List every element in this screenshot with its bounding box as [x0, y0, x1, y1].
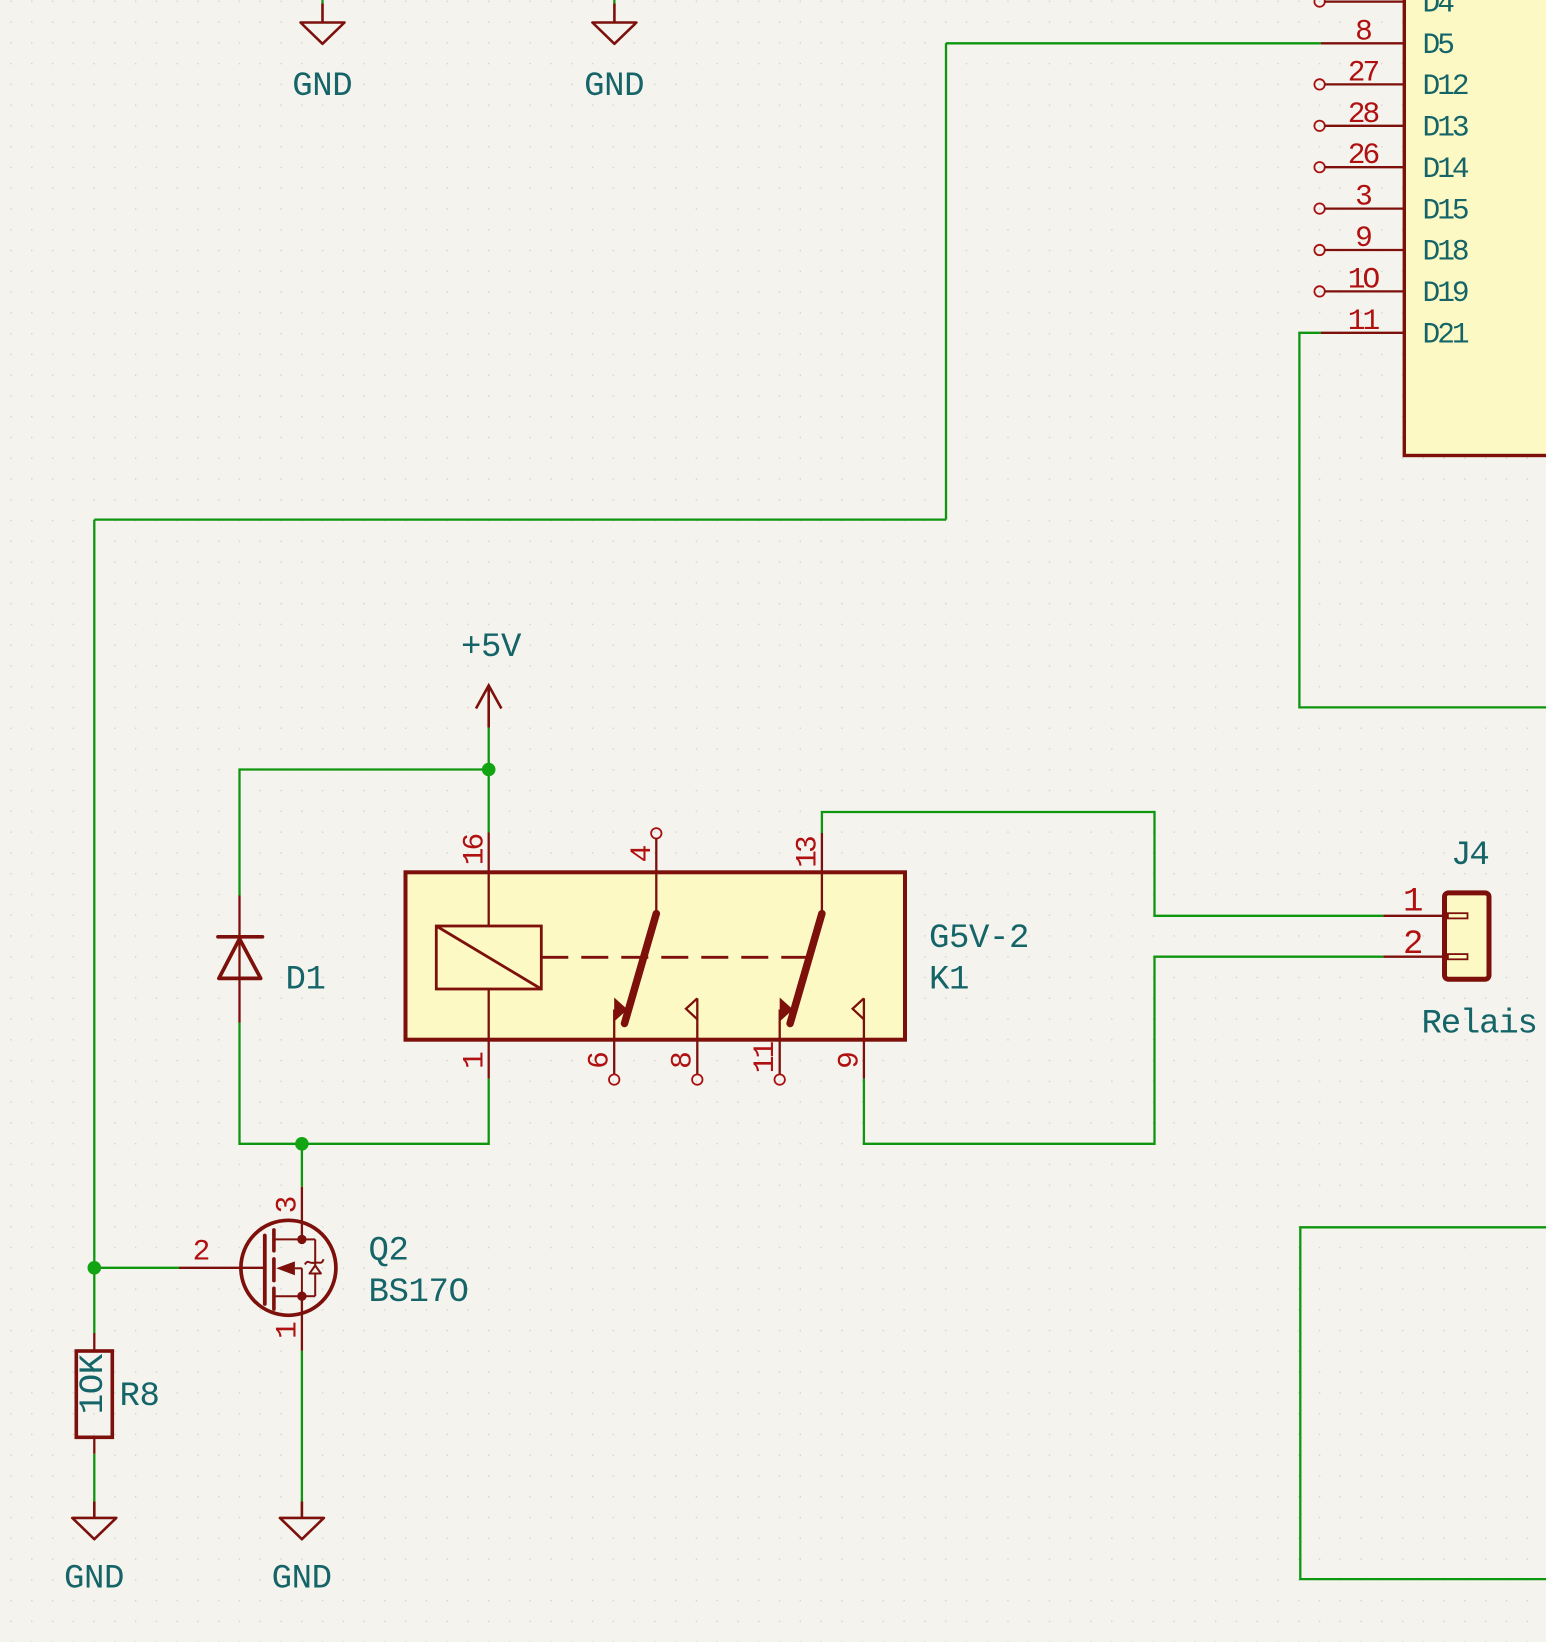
- wire D5 net horizontal top: [946, 42, 1321, 44]
- svg-text:BS17O: BS17O: [369, 1274, 469, 1312]
- wire gate of Q2: [94, 1267, 179, 1269]
- Q2 channel segments: [272, 1230, 276, 1251]
- svg-text:D14: D14: [1423, 152, 1469, 186]
- relay pin 16: [488, 833, 490, 927]
- relay switch 1: [625, 914, 657, 1024]
- resistor R8 10K: [75, 1333, 160, 1454]
- svg-text:2: 2: [1403, 926, 1423, 964]
- svg-text:1: 1: [1403, 884, 1423, 922]
- pin 3 D15: [1314, 180, 1468, 228]
- svg-text:J4: J4: [1451, 837, 1488, 875]
- wire D21 net: [1299, 333, 1546, 708]
- junction node gate/R8: [88, 1261, 102, 1275]
- svg-text:28: 28: [1348, 97, 1379, 131]
- svg-text:13: 13: [790, 837, 824, 868]
- svg-text:11: 11: [748, 1042, 782, 1074]
- wire D5 net long horizontal: [94, 518, 946, 520]
- wire R8 to GND: [93, 1454, 95, 1502]
- svg-text:6: 6: [583, 1053, 617, 1069]
- svg-text:GND: GND: [64, 1561, 124, 1599]
- pin 10 D19: [1314, 262, 1468, 310]
- svg-text:Relais: Relais: [1422, 1005, 1537, 1043]
- svg-text:11: 11: [1348, 304, 1380, 338]
- J4 pin 1: [1383, 915, 1444, 917]
- wire relay pin13 to J4 pin1: [822, 812, 1383, 916]
- transistor Q2 BS170: [179, 1187, 469, 1351]
- svg-text:D4: D4: [1423, 0, 1455, 20]
- svg-text:1O: 1O: [1348, 262, 1380, 296]
- svg-text:D13: D13: [1423, 111, 1468, 145]
- J4 pin 2: [1383, 956, 1444, 958]
- relay pin 1: [488, 989, 490, 1079]
- wire GND1 stub: [321, 0, 323, 4]
- svg-text:3: 3: [1355, 180, 1371, 214]
- junction node Q2 drain: [295, 1137, 309, 1151]
- ground GND2: [584, 4, 644, 107]
- svg-text:R8: R8: [120, 1378, 160, 1416]
- Q2 drain pin 3: [301, 1187, 303, 1240]
- ground GND1: [292, 4, 352, 107]
- svg-text:D5: D5: [1423, 28, 1454, 62]
- Q2 body arrow: [276, 1261, 295, 1275]
- svg-text:16: 16: [457, 835, 491, 866]
- svg-text:8: 8: [1355, 14, 1371, 48]
- svg-text:3: 3: [270, 1197, 304, 1213]
- svg-text:D19: D19: [1423, 276, 1468, 310]
- svg-text:D1: D1: [286, 962, 326, 1000]
- wire Q2 drain up: [301, 1144, 303, 1187]
- svg-text:1: 1: [457, 1052, 491, 1069]
- svg-text:+5V: +5V: [461, 629, 522, 667]
- ground GND4 (under Q2): [272, 1502, 332, 1599]
- connector J4 Relais: [1383, 837, 1536, 1043]
- relay pin 9: [853, 998, 864, 1019]
- wire D5 net vertical: [945, 43, 947, 519]
- svg-text:Q2: Q2: [369, 1233, 409, 1271]
- relay switch 2: [790, 914, 822, 1024]
- wire D1 bottom to bus: [240, 1023, 489, 1144]
- svg-text:GND: GND: [272, 1561, 332, 1599]
- diode D1: [218, 896, 326, 1023]
- pin 11 D21: [1321, 304, 1469, 352]
- wire bottom-right loop: [1300, 1227, 1546, 1579]
- junction node +5V: [482, 763, 496, 777]
- pin 27 D12: [1314, 55, 1468, 103]
- svg-text:1: 1: [270, 1322, 304, 1339]
- wire relay pin9 to J4 pin2: [864, 957, 1383, 1144]
- svg-text:K1: K1: [929, 962, 969, 1000]
- IC module U (partial, top right): [1404, 0, 1546, 456]
- svg-text:27: 27: [1348, 55, 1379, 89]
- svg-text:D21: D21: [1423, 318, 1469, 352]
- svg-text:9: 9: [832, 1053, 866, 1069]
- Q2 gate pin 2: [179, 1267, 263, 1269]
- relay pin 4: [651, 828, 661, 838]
- pin D4: [1314, 0, 1454, 20]
- wire Q2 source to GND: [301, 1351, 303, 1502]
- Q2 drain stub: [274, 1238, 302, 1240]
- svg-text:1OK: 1OK: [75, 1353, 113, 1414]
- relay coil: [436, 926, 541, 989]
- svg-text:D15: D15: [1423, 193, 1468, 227]
- relay K1 G5V-2: [406, 828, 1030, 1085]
- relay pin 13: [821, 833, 823, 914]
- pin 9 D18: [1314, 221, 1468, 269]
- svg-text:9: 9: [1355, 221, 1371, 255]
- relay link dashed line: [541, 956, 806, 959]
- svg-text:4: 4: [625, 845, 659, 862]
- pin 8 D5: [1321, 14, 1453, 62]
- svg-text:GND: GND: [292, 68, 352, 106]
- svg-text:2: 2: [193, 1234, 209, 1268]
- Q2 source pin 1: [301, 1296, 303, 1351]
- svg-text:8: 8: [666, 1053, 700, 1069]
- wire +5V down to relay pin 16: [488, 728, 490, 833]
- power symbol +5V: [461, 629, 522, 728]
- pin 26 D14: [1314, 138, 1469, 186]
- ground GND3 (under R8): [64, 1502, 124, 1599]
- svg-text:D18: D18: [1423, 235, 1468, 269]
- svg-text:GND: GND: [584, 68, 644, 106]
- relay pin 8: [686, 998, 697, 1019]
- svg-text:26: 26: [1348, 138, 1379, 172]
- svg-text:G5V-2: G5V-2: [929, 920, 1029, 958]
- pin 28 D13: [1314, 97, 1468, 145]
- Q2 source stub: [274, 1295, 302, 1297]
- svg-text:D12: D12: [1423, 69, 1468, 103]
- relay pin 6: [614, 998, 627, 1022]
- Q2 body diode: [302, 1238, 315, 1240]
- wire D5 net down left column: [93, 520, 95, 1333]
- wire GND2 stub: [613, 0, 615, 4]
- wire +5V to D1 top: [240, 770, 489, 896]
- relay pin 11: [780, 998, 793, 1022]
- Q2 gate bar: [263, 1236, 267, 1305]
